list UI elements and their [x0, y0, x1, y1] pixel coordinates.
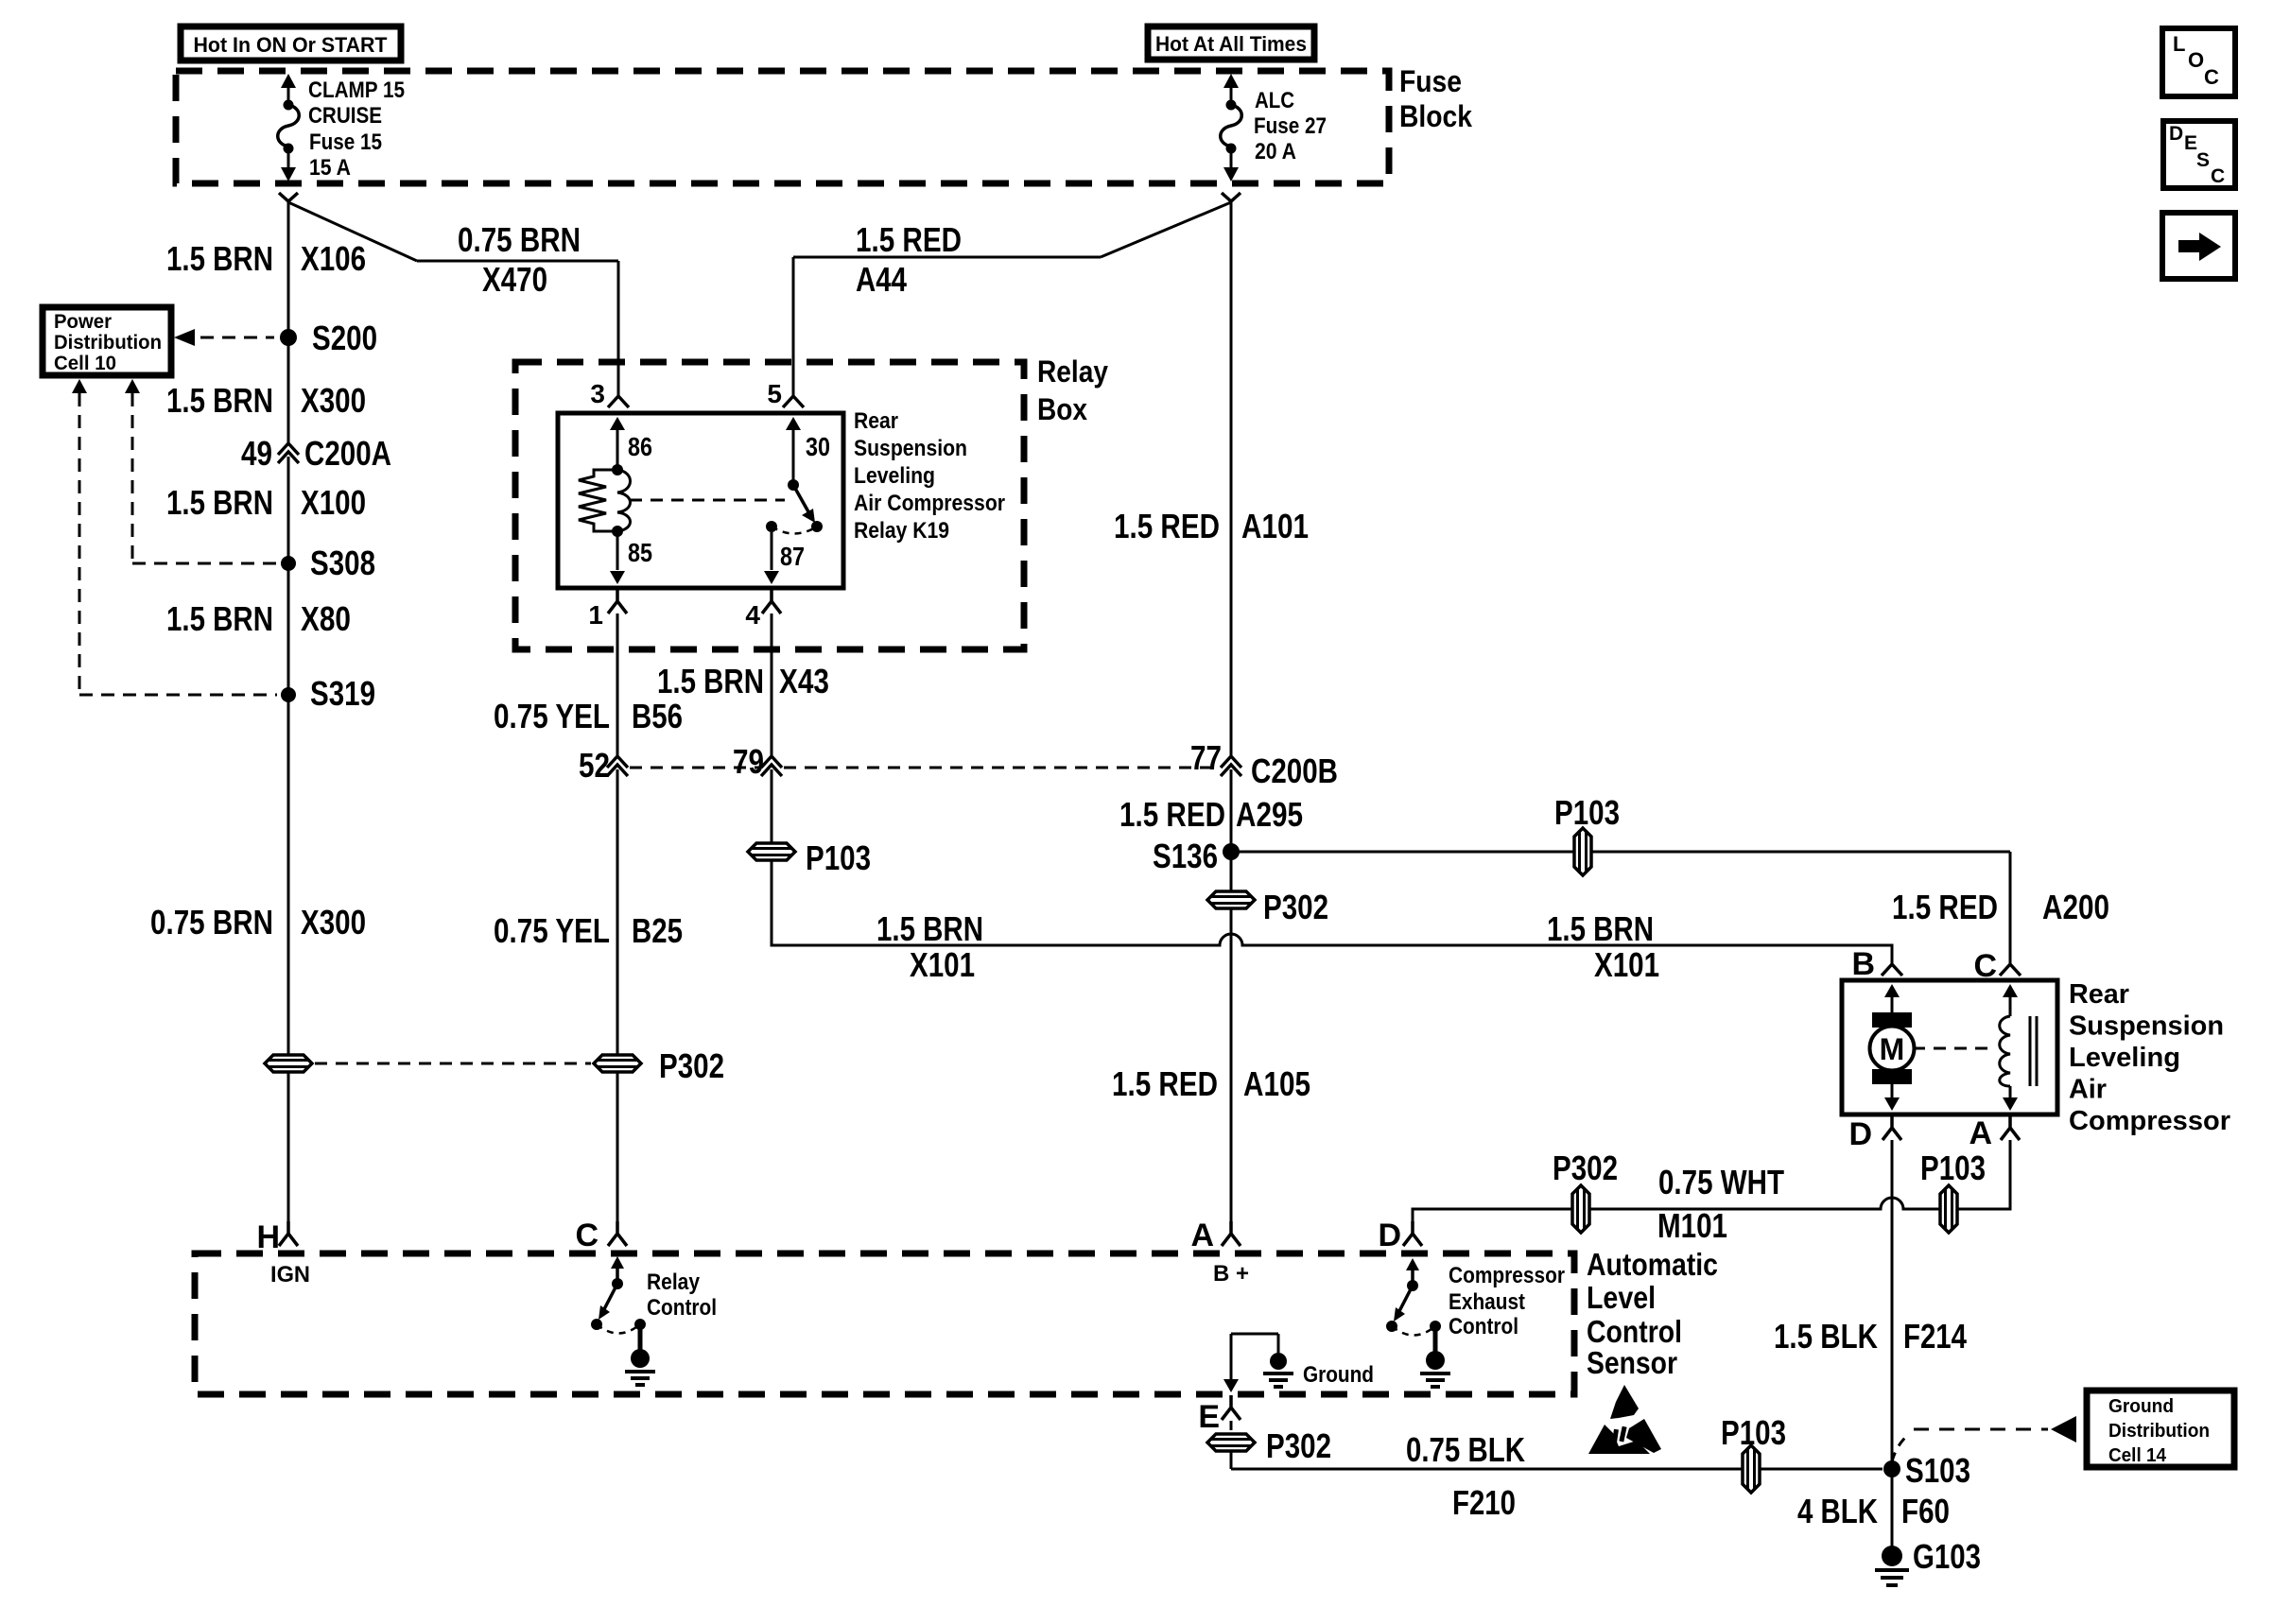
svg-text:Air Compressor: Air Compressor: [854, 491, 1005, 516]
svg-text:M101: M101: [1657, 1206, 1727, 1245]
svg-text:X43: X43: [779, 662, 829, 700]
svg-text:1.5 BRN: 1.5 BRN: [876, 909, 983, 948]
svg-text:Compressor: Compressor: [2069, 1106, 2230, 1136]
svg-text:Box: Box: [1037, 392, 1087, 426]
svg-text:X100: X100: [301, 483, 366, 522]
svg-text:5: 5: [767, 379, 782, 408]
svg-text:1: 1: [588, 600, 603, 630]
svg-text:Rear: Rear: [854, 408, 898, 434]
svg-text:X80: X80: [301, 599, 351, 638]
svg-text:Cell 14: Cell 14: [2108, 1445, 2167, 1466]
svg-text:B56: B56: [632, 697, 683, 735]
svg-text:1.5 RED: 1.5 RED: [1114, 507, 1220, 545]
svg-text:1.5 BRN: 1.5 BRN: [166, 381, 273, 420]
svg-text:S136: S136: [1153, 837, 1218, 875]
svg-text:L: L: [2173, 32, 2185, 56]
svg-text:A295: A295: [1236, 795, 1303, 834]
svg-text:Distribution: Distribution: [54, 332, 162, 354]
svg-text:B: B: [1851, 946, 1875, 982]
svg-text:Hot In ON Or START: Hot In ON Or START: [194, 33, 389, 57]
svg-text:20 A: 20 A: [1255, 139, 1296, 164]
svg-text:B +: B +: [1213, 1261, 1249, 1287]
svg-text:S: S: [2196, 149, 2210, 171]
svg-text:E: E: [2184, 132, 2197, 154]
svg-text:Control: Control: [647, 1295, 717, 1321]
svg-text:X300: X300: [301, 903, 366, 942]
svg-text:C: C: [575, 1218, 599, 1253]
svg-text:Suspension: Suspension: [2069, 1011, 2224, 1042]
svg-text:Fuse 27: Fuse 27: [1254, 113, 1327, 139]
svg-text:P302: P302: [659, 1046, 724, 1085]
svg-text:A44: A44: [856, 260, 907, 299]
svg-text:Block: Block: [1399, 99, 1472, 133]
svg-text:C: C: [2204, 65, 2219, 89]
svg-text:Air: Air: [2069, 1075, 2107, 1105]
svg-text:P103: P103: [806, 838, 871, 877]
svg-text:A200: A200: [2042, 888, 2109, 926]
svg-text:Ground: Ground: [1303, 1362, 1374, 1388]
svg-text:Exhaust: Exhaust: [1449, 1289, 1525, 1315]
svg-text:Power: Power: [54, 311, 112, 333]
svg-text:52: 52: [579, 746, 610, 785]
svg-text:1.5 BRN: 1.5 BRN: [1547, 909, 1654, 948]
svg-text:P103: P103: [1554, 793, 1620, 832]
svg-text:1.5 RED: 1.5 RED: [1119, 795, 1225, 834]
svg-text:Control: Control: [1587, 1314, 1682, 1349]
svg-text:Relay: Relay: [647, 1270, 701, 1295]
svg-text:X101: X101: [910, 945, 975, 984]
svg-text:1.5 RED: 1.5 RED: [1892, 888, 1998, 926]
svg-text:15 A: 15 A: [309, 155, 351, 181]
svg-text:1.5 BRN: 1.5 BRN: [166, 239, 273, 278]
svg-text:C: C: [2211, 165, 2225, 187]
svg-text:O: O: [2188, 48, 2204, 72]
svg-text:Automatic: Automatic: [1587, 1247, 1718, 1282]
svg-text:M: M: [1880, 1032, 1905, 1066]
svg-text:P103: P103: [1920, 1149, 1986, 1187]
svg-text:P103: P103: [1721, 1413, 1786, 1452]
svg-text:Control: Control: [1449, 1314, 1518, 1339]
svg-text:D: D: [2169, 123, 2183, 145]
svg-text:Sensor: Sensor: [1587, 1345, 1677, 1380]
svg-text:ALC: ALC: [1255, 88, 1294, 113]
svg-text:4 BLK: 4 BLK: [1797, 1492, 1878, 1530]
svg-text:85: 85: [628, 538, 652, 567]
svg-text:0.75 BRN: 0.75 BRN: [458, 220, 581, 259]
svg-text:A: A: [1190, 1218, 1214, 1253]
svg-text:S103: S103: [1905, 1451, 1970, 1490]
svg-text:1.5 BLK: 1.5 BLK: [1774, 1317, 1878, 1356]
svg-text:C: C: [1973, 948, 1997, 984]
svg-text:Fuse: Fuse: [1399, 64, 1462, 98]
svg-text:Leveling: Leveling: [854, 463, 935, 489]
svg-text:P302: P302: [1553, 1149, 1618, 1187]
svg-text:4: 4: [745, 600, 760, 630]
svg-text:Distribution: Distribution: [2108, 1421, 2210, 1442]
svg-text:1.5 RED: 1.5 RED: [1112, 1064, 1218, 1103]
svg-text:D: D: [1848, 1116, 1872, 1152]
svg-text:IGN: IGN: [270, 1262, 310, 1287]
svg-text:Cell 10: Cell 10: [54, 353, 116, 374]
svg-text:F214: F214: [1903, 1317, 1967, 1356]
svg-text:0.75 BRN: 0.75 BRN: [150, 903, 273, 942]
svg-text:F210: F210: [1452, 1483, 1516, 1522]
svg-text:S308: S308: [310, 544, 375, 582]
svg-text:P302: P302: [1266, 1426, 1331, 1465]
svg-text:Relay K19: Relay K19: [854, 518, 949, 544]
svg-text:Rear: Rear: [2069, 979, 2129, 1010]
svg-text:Level: Level: [1587, 1280, 1656, 1315]
svg-text:3: 3: [590, 379, 605, 408]
svg-text:H: H: [256, 1219, 280, 1255]
svg-text:A101: A101: [1241, 507, 1309, 545]
svg-text:A: A: [1969, 1115, 1992, 1151]
svg-text:0.75 WHT: 0.75 WHT: [1658, 1163, 1784, 1201]
svg-text:1.5 BRN: 1.5 BRN: [657, 662, 764, 700]
svg-text:0.75 YEL: 0.75 YEL: [494, 697, 610, 735]
svg-text:CRUISE: CRUISE: [308, 103, 382, 129]
svg-text:Hot At All Times: Hot At All Times: [1155, 32, 1307, 56]
svg-text:CLAMP 15: CLAMP 15: [308, 78, 405, 103]
svg-text:0.75 BLK: 0.75 BLK: [1406, 1430, 1525, 1469]
svg-text:X300: X300: [301, 381, 366, 420]
svg-text:Suspension: Suspension: [854, 436, 967, 461]
svg-text:G103: G103: [1913, 1537, 1981, 1576]
svg-text:X106: X106: [301, 239, 366, 278]
svg-text:Ground: Ground: [2108, 1396, 2174, 1417]
svg-text:30: 30: [806, 432, 830, 461]
svg-text:B25: B25: [632, 911, 683, 950]
svg-text:Fuse 15: Fuse 15: [309, 130, 382, 155]
svg-text:0.75 YEL: 0.75 YEL: [494, 911, 610, 950]
svg-text:E: E: [1198, 1399, 1220, 1435]
svg-text:P302: P302: [1263, 888, 1328, 926]
svg-text:Leveling: Leveling: [2069, 1043, 2180, 1073]
svg-text:S319: S319: [310, 674, 375, 713]
svg-text:Compressor: Compressor: [1449, 1263, 1565, 1288]
svg-text:F60: F60: [1901, 1492, 1950, 1530]
svg-text:C200A: C200A: [304, 434, 391, 473]
svg-text:C200B: C200B: [1251, 752, 1338, 790]
svg-text:49: 49: [241, 434, 272, 473]
svg-text:79: 79: [733, 742, 764, 781]
svg-text:87: 87: [780, 542, 805, 571]
svg-text:1.5 BRN: 1.5 BRN: [166, 599, 273, 638]
svg-text:S200: S200: [312, 319, 377, 357]
svg-text:A105: A105: [1243, 1064, 1310, 1103]
svg-text:D: D: [1378, 1218, 1401, 1253]
svg-text:1.5 BRN: 1.5 BRN: [166, 483, 273, 522]
svg-text:86: 86: [628, 432, 652, 461]
svg-text:1.5 RED: 1.5 RED: [856, 220, 962, 259]
svg-text:X101: X101: [1594, 945, 1659, 984]
svg-text:X470: X470: [482, 260, 547, 299]
svg-text:Relay: Relay: [1037, 354, 1108, 389]
svg-text:77: 77: [1190, 738, 1222, 777]
